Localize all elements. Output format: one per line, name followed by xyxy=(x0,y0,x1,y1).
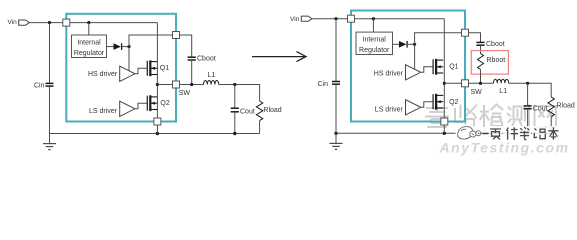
wire Q1 drain rail xyxy=(156,23,158,85)
wire SW line xyxy=(157,84,203,86)
site name char 3 xyxy=(520,127,529,140)
wire Cout bottom lead xyxy=(234,113,236,134)
watermark layer (light gray, under schematic) xyxy=(425,105,570,156)
watermark char 3 xyxy=(480,105,503,128)
wire regulator input drop xyxy=(88,23,90,35)
wire HS driver supply xyxy=(414,44,416,69)
op-amp HS driver xyxy=(120,66,135,81)
watermark char 2 xyxy=(455,105,477,128)
svg-text:Cin: Cin xyxy=(34,83,45,90)
node rail Cout xyxy=(526,132,529,135)
node Cout tap xyxy=(233,83,236,86)
svg-text:Vin: Vin xyxy=(290,16,300,23)
wire Vin input xyxy=(29,22,66,24)
watermark char 1 xyxy=(425,105,449,128)
logo dash xyxy=(483,133,490,135)
wire HS driver supply xyxy=(128,47,130,71)
pin PGND xyxy=(154,118,161,125)
IC outline box (teal) xyxy=(66,14,176,122)
svg-text:Rboot: Rboot xyxy=(487,57,506,64)
wire Q2 drain rail xyxy=(156,85,158,122)
ground xyxy=(335,133,337,143)
capacitor Cout xyxy=(231,107,239,109)
left schematic xyxy=(8,14,282,150)
resistor Rload xyxy=(548,97,554,117)
pin SW xyxy=(462,80,469,87)
svg-text:Q2: Q2 xyxy=(449,99,458,106)
wire Cout top lead xyxy=(527,83,529,105)
capacitor Cboot xyxy=(476,41,484,43)
wire Q2 source pin to rail xyxy=(156,122,158,134)
svg-text:Q2: Q2 xyxy=(160,100,169,107)
transistor Q1 xyxy=(432,59,434,74)
port Vin xyxy=(19,20,30,25)
svg-text:LS driver: LS driver xyxy=(89,108,118,115)
svg-text:Regulator: Regulator xyxy=(74,50,105,57)
wire HS driver to Q1 gate xyxy=(421,67,433,73)
wire Cin top lead xyxy=(335,19,337,81)
wire Rboot to SW xyxy=(480,70,482,84)
wire boot riser to BOOT pin and Cboot xyxy=(129,35,192,57)
wire ground rail xyxy=(50,133,260,135)
site name char halos xyxy=(489,126,560,140)
site name char 4 xyxy=(534,129,545,139)
wire Vin input xyxy=(312,18,351,20)
wire Q1 drain rail xyxy=(443,19,445,84)
wire Cin bottom lead xyxy=(49,87,51,134)
wire Rload bottom lead xyxy=(550,117,552,134)
node regulator tap xyxy=(372,17,375,20)
svg-text:SW: SW xyxy=(179,90,191,97)
svg-text:Cout: Cout xyxy=(240,108,255,115)
port Vin xyxy=(301,16,312,21)
node Vin junction to Cin xyxy=(48,21,51,24)
wire ground rail xyxy=(336,132,551,134)
overlay logo and site name (on top) xyxy=(456,125,560,141)
wire diode cathode xyxy=(407,43,415,45)
arrow between schematics xyxy=(252,52,306,62)
wire LS driver to Q2 gate xyxy=(421,102,433,108)
logo doodle sketch xyxy=(458,127,481,140)
wire LS driver to Q2 gate xyxy=(135,103,147,109)
capacitor Cin xyxy=(332,81,340,83)
wire diode anode xyxy=(107,46,114,48)
wire L1 to output xyxy=(509,83,552,97)
site name char 1 xyxy=(490,129,501,140)
node Vin junction to Cin xyxy=(334,17,337,20)
svg-text:HS driver: HS driver xyxy=(88,71,118,78)
wire Cout top lead xyxy=(234,85,236,108)
node SW at Q1 source xyxy=(156,83,159,86)
svg-text:Internal: Internal xyxy=(363,37,387,44)
svg-text:HS driver: HS driver xyxy=(374,71,404,78)
wire diode anode xyxy=(393,43,400,45)
svg-text:Q1: Q1 xyxy=(449,64,458,71)
svg-text:LS driver: LS driver xyxy=(375,107,404,114)
svg-text:L1: L1 xyxy=(208,72,216,79)
wire Cin top lead xyxy=(49,23,51,83)
pin SW xyxy=(173,81,180,88)
ground xyxy=(49,134,51,144)
node boot junction xyxy=(413,43,416,46)
wire Cout bottom lead xyxy=(527,109,529,133)
wire Vin internal rail xyxy=(66,22,157,24)
svg-text:Cboot: Cboot xyxy=(486,41,505,48)
site name char 5 xyxy=(548,127,558,140)
wire L1 to output xyxy=(219,85,260,102)
node SW Cboot return xyxy=(190,83,193,86)
svg-text:Cboot: Cboot xyxy=(197,56,216,63)
transistor Q2 xyxy=(146,96,148,111)
IC outline box (teal) xyxy=(351,11,465,122)
highlight box (red) xyxy=(471,51,508,75)
wire Cboot to Rboot xyxy=(480,46,482,54)
regulator block xyxy=(72,35,107,58)
svg-text:Rload: Rload xyxy=(263,107,281,114)
wire HS driver to Q1 gate xyxy=(135,68,147,74)
pin VIN xyxy=(63,19,70,26)
svg-text:Vin: Vin xyxy=(8,19,18,26)
svg-text:Rload: Rload xyxy=(557,103,575,110)
wire Rload bottom lead xyxy=(259,121,261,134)
svg-text:Internal: Internal xyxy=(77,40,101,47)
svg-text:SW: SW xyxy=(471,89,483,96)
wire boot riser to BOOT pin and Cboot xyxy=(415,33,481,45)
resistor Rboot xyxy=(478,54,484,70)
node rail Cout xyxy=(233,132,236,135)
wire Q2 source pin to rail xyxy=(443,122,445,134)
capacitor Cout xyxy=(524,105,532,107)
inductor L1 xyxy=(494,79,509,83)
pin VIN xyxy=(348,15,355,22)
svg-text:AnyTesting.com: AnyTesting.com xyxy=(439,140,570,156)
resistor Rload xyxy=(256,101,262,121)
op-amp LS driver xyxy=(406,100,421,115)
site name char 2 xyxy=(507,127,519,140)
op-amp LS driver xyxy=(120,101,135,116)
node Cout tap xyxy=(526,82,529,85)
svg-text:Regulator: Regulator xyxy=(359,47,390,54)
svg-text:Q1: Q1 xyxy=(160,65,169,72)
logo doodle halo xyxy=(456,125,479,141)
wire diode cathode xyxy=(122,46,129,48)
node rail Q2 xyxy=(443,132,446,135)
node SW Rboot return xyxy=(479,82,482,85)
regulator block xyxy=(356,32,393,54)
right schematic xyxy=(290,11,575,150)
transistor Q2 xyxy=(432,94,434,109)
svg-text:L1: L1 xyxy=(499,88,507,95)
node rail Cin xyxy=(334,132,337,135)
svg-text:Cin: Cin xyxy=(318,81,329,88)
wire Vin internal rail xyxy=(351,18,444,20)
node rail Q2 xyxy=(156,132,159,135)
diode D1 xyxy=(114,43,121,50)
wire Cin bottom lead xyxy=(335,85,337,134)
wire regulator input drop xyxy=(372,19,374,32)
node boot junction xyxy=(127,45,130,48)
capacitor Cboot xyxy=(188,56,196,58)
watermark char 4 xyxy=(507,105,529,128)
wire Q2 drain rail xyxy=(443,83,445,121)
svg-text:Cout: Cout xyxy=(533,105,548,112)
diode D1 xyxy=(399,41,406,48)
wire Cboot to SW xyxy=(191,61,193,85)
pin PGND xyxy=(441,118,448,125)
pin BOOT xyxy=(173,32,180,39)
op-amp HS driver xyxy=(406,65,421,80)
wire SW line xyxy=(444,82,493,84)
capacitor Cin xyxy=(46,82,54,84)
inductor L1 xyxy=(204,81,219,85)
transistor Q1 xyxy=(146,61,148,76)
node regulator tap xyxy=(87,21,90,24)
watermark char 5 xyxy=(535,106,557,127)
pin BOOT xyxy=(462,29,469,36)
node SW at Q1 source xyxy=(443,82,446,85)
